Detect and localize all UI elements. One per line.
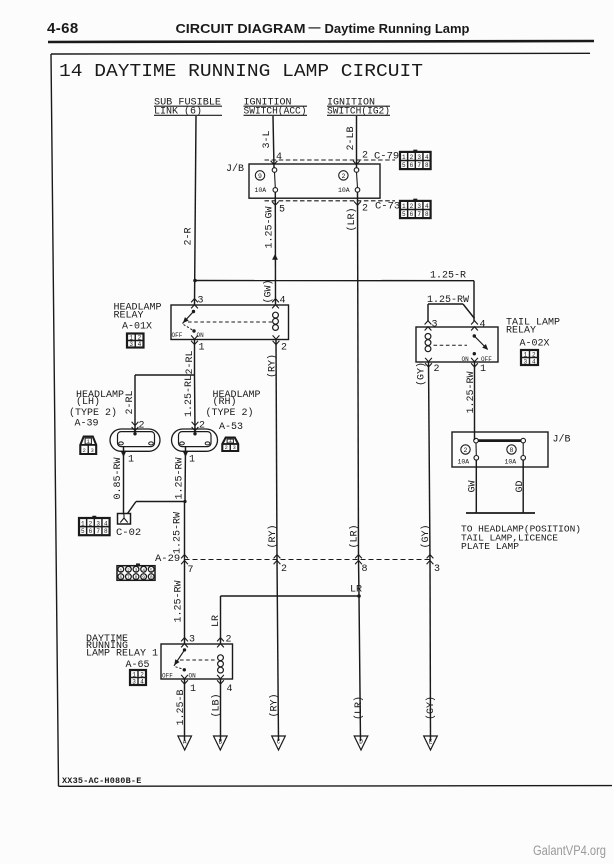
svg-text:9: 9: [142, 575, 145, 581]
svg-text:1.25-RW: 1.25-RW: [175, 457, 186, 499]
svg-text:(TYPE 2): (TYPE 2): [69, 407, 117, 419]
svg-text:5: 5: [81, 528, 85, 535]
svg-text:ON: ON: [462, 356, 470, 363]
svg-text:6: 6: [89, 528, 93, 535]
svg-text:5: 5: [279, 205, 285, 216]
svg-text:CIRCUIT DIAGRAM: CIRCUIT DIAGRAM: [176, 21, 306, 36]
svg-text:J/B: J/B: [553, 434, 571, 446]
svg-text:8: 8: [510, 447, 514, 454]
svg-text:2-RL: 2-RL: [125, 390, 136, 414]
svg-text:4: 4: [140, 678, 144, 685]
svg-text:4: 4: [480, 320, 486, 331]
svg-text:4: 4: [425, 203, 429, 210]
svg-text:0: 0: [150, 575, 153, 581]
svg-text:(LR): (LR): [349, 524, 361, 548]
svg-text:2: 2: [434, 364, 440, 375]
svg-text:1.25-R: 1.25-R: [430, 271, 466, 282]
svg-text:GalantVP4.org: GalantVP4.org: [533, 843, 606, 858]
svg-text:PLATE LAMP: PLATE LAMP: [461, 541, 519, 552]
svg-text:1: 1: [229, 438, 232, 444]
svg-text:7: 7: [127, 575, 130, 581]
svg-text:2: 2: [226, 635, 232, 646]
svg-text:1: 1: [128, 455, 134, 466]
svg-text:1: 1: [87, 439, 90, 445]
svg-text:7: 7: [188, 565, 194, 576]
svg-text:3: 3: [432, 320, 438, 331]
svg-text:8: 8: [425, 211, 429, 218]
svg-text:2: 2: [410, 154, 414, 161]
svg-text:(RY): (RY): [269, 693, 281, 717]
svg-text:OFF: OFF: [172, 332, 183, 339]
svg-text:1.25-RL: 1.25-RL: [184, 375, 195, 417]
svg-text:10A: 10A: [505, 459, 517, 466]
svg-text:1: 1: [523, 351, 527, 358]
svg-text:5: 5: [402, 162, 406, 169]
svg-text:4: 4: [425, 154, 429, 161]
svg-text:RELAY: RELAY: [506, 326, 536, 337]
svg-text:B: B: [218, 739, 222, 746]
svg-text:4: 4: [138, 341, 142, 348]
svg-text:1.25-RW: 1.25-RW: [466, 371, 477, 413]
svg-text:RELAY: RELAY: [114, 311, 144, 322]
svg-text:LR: LR: [350, 585, 362, 596]
svg-text:4: 4: [142, 567, 145, 573]
svg-text:2: 2: [362, 204, 368, 215]
svg-text:LAMP RELAY 1: LAMP RELAY 1: [86, 649, 158, 660]
svg-text:4: 4: [227, 684, 233, 695]
svg-text:3: 3: [523, 358, 527, 365]
svg-text:(RY): (RY): [267, 354, 279, 378]
svg-text:1.25-RW: 1.25-RW: [174, 580, 185, 622]
svg-text:4: 4: [280, 296, 286, 307]
svg-text:1: 1: [190, 684, 196, 695]
svg-text:7: 7: [417, 162, 421, 169]
svg-text:(LH): (LH): [76, 396, 100, 408]
svg-text:5: 5: [150, 567, 153, 573]
svg-text:A-29: A-29: [155, 553, 180, 565]
svg-text:2: 2: [139, 421, 145, 432]
svg-text:1.25-RW: 1.25-RW: [173, 512, 184, 554]
svg-text:LR: LR: [211, 615, 222, 627]
svg-text:(GY): (GY): [416, 362, 428, 386]
svg-text:0.85-RW: 0.85-RW: [113, 457, 124, 499]
svg-text:2: 2: [464, 447, 468, 454]
svg-text:(GW): (GW): [263, 279, 275, 303]
svg-text:1: 1: [119, 567, 122, 573]
svg-text:(GY): (GY): [420, 524, 432, 548]
svg-text:2: 2: [362, 151, 368, 162]
svg-text:2: 2: [532, 351, 536, 358]
svg-text:8: 8: [362, 564, 368, 575]
svg-text:XX35-AC-H080B-E: XX35-AC-H080B-E: [62, 776, 142, 786]
svg-text:1: 1: [81, 520, 85, 527]
svg-text:Daytime Running Lamp: Daytime Running Lamp: [325, 21, 470, 36]
svg-text:2-LB: 2-LB: [346, 126, 357, 150]
svg-text:1: 1: [132, 671, 136, 678]
svg-text:OFF: OFF: [162, 673, 173, 680]
svg-text:7: 7: [96, 528, 100, 535]
svg-text:1: 1: [480, 364, 486, 375]
svg-text:OFF: OFF: [481, 356, 492, 363]
svg-text:3: 3: [417, 154, 421, 161]
svg-text:3: 3: [96, 520, 100, 527]
svg-text:10A: 10A: [338, 187, 350, 194]
svg-text:A-53: A-53: [219, 422, 243, 433]
svg-text:4: 4: [532, 358, 536, 365]
svg-text:2: 2: [127, 567, 130, 573]
svg-text:3: 3: [129, 341, 133, 348]
svg-text:E: E: [429, 739, 433, 746]
svg-text:(LB): (LB): [211, 693, 223, 717]
svg-text:1.25-B: 1.25-B: [176, 689, 187, 725]
svg-text:6: 6: [410, 162, 414, 169]
svg-text:8: 8: [425, 162, 429, 169]
svg-text:2-R: 2-R: [184, 227, 195, 245]
svg-text:(LR): (LR): [353, 696, 365, 720]
svg-text:2: 2: [89, 520, 93, 527]
svg-text:(LR): (LR): [346, 207, 358, 231]
svg-text:8: 8: [135, 575, 138, 581]
svg-text:8: 8: [104, 528, 108, 535]
svg-text:3: 3: [417, 203, 421, 210]
svg-text:3: 3: [91, 448, 94, 454]
svg-text:ON: ON: [189, 673, 197, 680]
svg-text:2: 2: [83, 448, 86, 454]
svg-text:4: 4: [104, 520, 108, 527]
svg-text:A-02X: A-02X: [520, 339, 550, 350]
svg-text:GD: GD: [515, 480, 526, 492]
svg-text:D: D: [359, 739, 363, 746]
svg-text:3: 3: [198, 296, 204, 307]
svg-text:(RY): (RY): [267, 524, 279, 548]
svg-text:5: 5: [402, 211, 406, 218]
svg-text:C-02: C-02: [116, 527, 141, 539]
svg-text:(TYPE 2): (TYPE 2): [206, 407, 254, 419]
svg-text:C-79: C-79: [374, 151, 399, 163]
svg-text:(GY): (GY): [425, 696, 437, 720]
svg-text:2: 2: [140, 671, 144, 678]
svg-text:1.25-GW: 1.25-GW: [265, 206, 276, 248]
svg-text:10A: 10A: [255, 187, 267, 194]
svg-text:2: 2: [341, 173, 345, 180]
svg-text:1: 1: [402, 154, 406, 161]
svg-text:3: 3: [135, 567, 138, 573]
svg-text:2: 2: [410, 203, 414, 210]
svg-text:2: 2: [199, 421, 205, 432]
svg-text:GW: GW: [468, 480, 479, 492]
svg-text:7: 7: [417, 211, 421, 218]
svg-text:A-01X: A-01X: [122, 322, 152, 333]
svg-text:3: 3: [189, 635, 195, 646]
svg-text:3: 3: [233, 445, 236, 451]
svg-text:A: A: [183, 739, 187, 746]
svg-text:2-RL: 2-RL: [185, 350, 196, 374]
svg-text:A-39: A-39: [75, 419, 99, 430]
svg-text:10A: 10A: [458, 459, 470, 466]
svg-text:2: 2: [281, 564, 287, 575]
svg-text:4-68: 4-68: [47, 20, 79, 37]
svg-text:9: 9: [258, 173, 262, 180]
svg-text:3-L: 3-L: [262, 130, 273, 148]
svg-text:J/B: J/B: [226, 163, 244, 175]
svg-text:6: 6: [410, 211, 414, 218]
svg-text:2: 2: [281, 343, 287, 354]
svg-text:3: 3: [132, 678, 136, 685]
svg-text:1: 1: [402, 203, 406, 210]
svg-text:C-73: C-73: [375, 201, 400, 213]
svg-text:(RH): (RH): [213, 396, 237, 408]
svg-text:1: 1: [189, 455, 195, 466]
svg-text:6: 6: [119, 575, 122, 581]
svg-text:2: 2: [225, 445, 228, 451]
svg-text:3: 3: [434, 564, 440, 575]
svg-text:14 DAYTIME RUNNING LAMP CIRCUI: 14 DAYTIME RUNNING LAMP CIRCUIT: [59, 62, 423, 82]
svg-text:1: 1: [199, 343, 205, 354]
svg-text:—: —: [309, 20, 321, 34]
svg-text:C: C: [277, 739, 281, 746]
